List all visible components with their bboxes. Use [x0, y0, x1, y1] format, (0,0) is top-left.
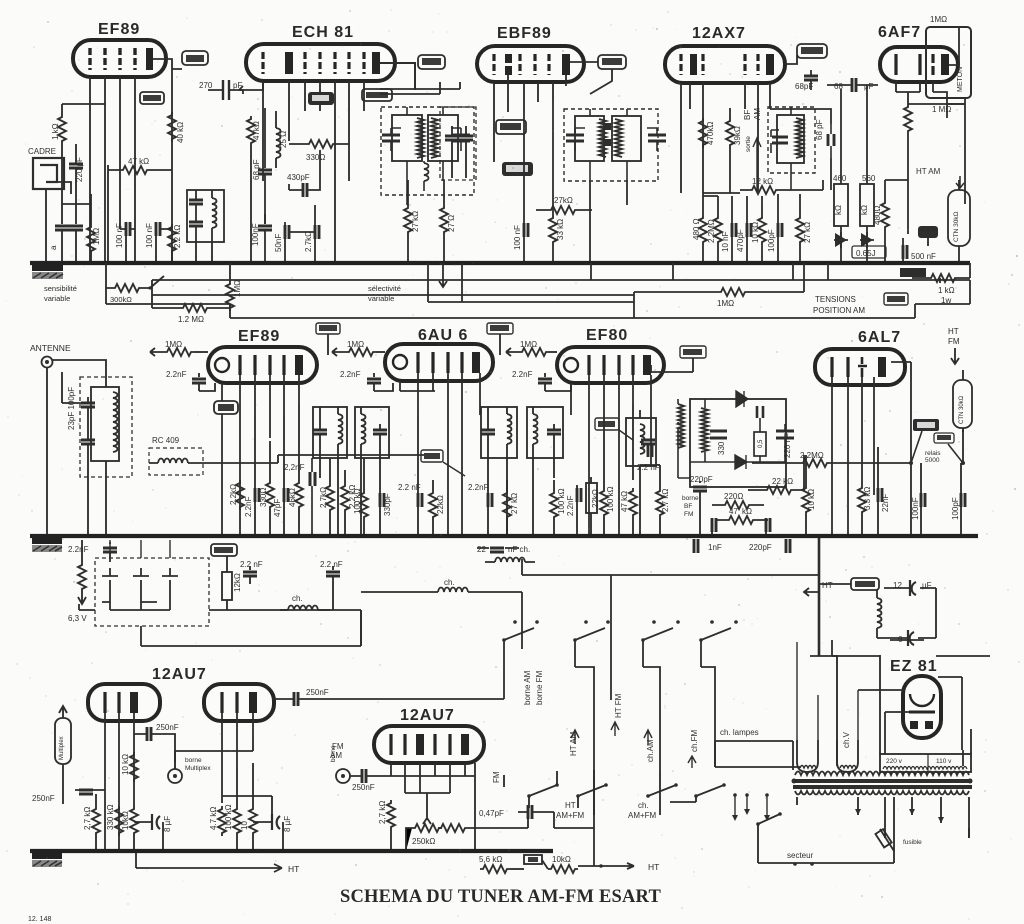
capacitor 2.2nF g1	[68, 542, 117, 562]
resistor 10k	[751, 196, 766, 263]
tube 12AU7 b	[374, 707, 484, 763]
secondary arrows	[855, 809, 944, 823]
svg-text:HT: HT	[565, 801, 576, 810]
svg-text:HT: HT	[948, 327, 959, 336]
badge 230v	[934, 433, 954, 443]
svg-text:EF89: EF89	[98, 21, 140, 38]
svg-text:8 µF: 8 µF	[283, 816, 292, 832]
svg-text:68: 68	[834, 82, 843, 91]
svg-text:5000: 5000	[925, 457, 940, 464]
svg-text:2.2nF: 2.2nF	[166, 370, 187, 379]
resistor 47k horizontal	[108, 157, 172, 174]
resistor 2.7k m1	[319, 458, 334, 536]
resistor 1k 1w	[912, 263, 970, 305]
resistor 10k v	[802, 455, 816, 536]
tube EF89 (top)	[73, 21, 166, 77]
wire row 295	[106, 295, 634, 304]
badge METON	[957, 27, 965, 104]
winding box C 220v 110v	[880, 655, 971, 772]
svg-text:330Ω: 330Ω	[306, 153, 325, 162]
svg-text:10kΩ: 10kΩ	[552, 855, 571, 864]
capacitor 2.2nF d	[468, 478, 492, 536]
labels borne AM FM	[523, 670, 544, 705]
label BF AM	[743, 108, 762, 190]
resistor 10k bot	[542, 855, 659, 873]
svg-text:sensibilité: sensibilité	[44, 284, 77, 293]
wire right drop	[634, 280, 970, 318]
switch mains	[732, 793, 770, 823]
switch row2 d	[670, 783, 726, 802]
svg-text:HT AM: HT AM	[569, 731, 578, 756]
svg-text:BF: BF	[743, 110, 752, 120]
svg-text:100pF: 100pF	[767, 229, 776, 252]
wire	[681, 83, 770, 193]
resistor 330 col	[259, 441, 274, 536]
transformer secondary bumps	[795, 791, 969, 795]
resistor grid EF89m + arrow	[150, 340, 208, 356]
svg-text:2.2 nF: 2.2 nF	[320, 560, 343, 569]
svg-text:2.2kΩ: 2.2kΩ	[229, 484, 238, 505]
svg-text:100 nF: 100 nF	[513, 225, 522, 250]
svg-text:100 kΩ: 100 kΩ	[606, 486, 615, 512]
resistor 1M vert	[226, 263, 634, 318]
resistor 330k bb	[106, 804, 123, 836]
capacitor 100pF	[767, 194, 782, 263]
svg-text:25 Ω: 25 Ω	[279, 131, 288, 148]
svg-text:470kΩ: 470kΩ	[706, 122, 715, 145]
ratio detector box	[678, 391, 794, 487]
svg-text:FM: FM	[684, 511, 693, 518]
svg-text:HT: HT	[648, 862, 659, 872]
resistor 470k	[699, 118, 715, 148]
svg-text:HT FM: HT FM	[614, 693, 623, 718]
resistor 10k bc	[240, 763, 257, 851]
winding box B	[837, 656, 858, 772]
wire	[263, 81, 364, 181]
winding box A	[797, 642, 818, 772]
capacitor 100nF b + resistor 2.2k	[145, 222, 182, 263]
resistor 2.7k bd	[378, 800, 395, 851]
wire RC409 right	[278, 455, 430, 463]
wire mid verticals	[361, 559, 819, 700]
relay trapezoid	[909, 431, 965, 465]
coil filter	[877, 590, 882, 638]
resistor boxes 460 560	[833, 85, 876, 263]
svg-text:100 nF: 100 nF	[145, 223, 154, 248]
capacitor 2.2nF 6AU6	[340, 370, 393, 391]
IF can M2	[355, 407, 389, 458]
tube 12AU7 a	[88, 666, 207, 721]
resistor 47k h	[716, 507, 768, 524]
label ch lampes	[715, 728, 793, 770]
switch s3	[641, 620, 680, 770]
svg-text:HT: HT	[822, 581, 833, 590]
capacitor 100pF r2	[951, 463, 965, 536]
capacitor 430pF	[287, 150, 320, 197]
CTN box	[948, 180, 970, 263]
svg-text:100 kΩ: 100 kΩ	[353, 488, 362, 514]
svg-text:1 kΩ: 1 kΩ	[938, 286, 955, 295]
capacitor 270pF	[199, 80, 243, 100]
svg-text:220 v: 220 v	[886, 758, 903, 765]
label FM vert	[492, 771, 501, 783]
resistor 300k pot	[106, 276, 164, 304]
svg-text:27 kΩ: 27 kΩ	[803, 222, 812, 243]
svg-text:46kΩ: 46kΩ	[288, 488, 297, 507]
svg-text:SCHEMA DU TUNER AM-FM ESART: SCHEMA DU TUNER AM-FM ESART	[340, 887, 661, 907]
resistor 27k B	[536, 196, 592, 214]
svg-text:TENSIONS: TENSIONS	[815, 295, 856, 304]
wire secondary taps top	[594, 767, 800, 815]
capacitor 250nF b	[272, 688, 504, 706]
wire antenna	[47, 360, 106, 536]
svg-text:12AU7: 12AU7	[400, 707, 455, 724]
label tensions position am	[813, 295, 865, 315]
svg-text:27 kΩ: 27 kΩ	[510, 493, 519, 514]
diode a	[834, 232, 848, 248]
svg-text:ch. lampes: ch. lampes	[720, 728, 759, 737]
svg-text:12AX7: 12AX7	[692, 25, 746, 42]
capacitor 8uF bc	[222, 796, 292, 851]
potentiometer 250k	[406, 810, 476, 851]
IF can M1	[313, 407, 347, 458]
wire M cans	[320, 458, 380, 536]
svg-text:22kΩ: 22kΩ	[436, 495, 445, 514]
svg-text:1MΩ: 1MΩ	[92, 228, 101, 245]
svg-text:borne: borne	[682, 495, 699, 502]
resistor 6.3V arrow	[78, 540, 86, 604]
svg-text:68 pF: 68 pF	[252, 159, 261, 180]
svg-text:Multiplex: Multiplex	[185, 765, 211, 772]
label HT AM sw	[569, 730, 579, 756]
resistor 0.5 v	[222, 556, 242, 610]
svg-text:10 nF: 10 nF	[721, 231, 730, 252]
svg-text:1MΩ: 1MΩ	[520, 340, 537, 349]
svg-text:220pF: 220pF	[690, 475, 713, 484]
label HT FM sw	[611, 693, 623, 736]
svg-text:330: 330	[717, 441, 726, 455]
svg-text:kΩ: kΩ	[834, 205, 843, 215]
resistor 1M	[87, 224, 101, 263]
svg-text:2.2nF: 2.2nF	[566, 495, 575, 516]
resistor 3.3k	[858, 485, 872, 536]
capacitor 2.2nF EF80	[512, 370, 571, 391]
svg-text:250nF: 250nF	[306, 688, 329, 697]
capacitor 100nF r1	[911, 463, 925, 536]
capacitor cluster ECH bottom	[274, 205, 319, 263]
resistor 4.7k bc	[209, 806, 226, 836]
tube EBF89 (top)	[477, 25, 584, 82]
svg-text:12AU7: 12AU7	[152, 666, 207, 683]
svg-text:250nF: 250nF	[156, 723, 179, 732]
svg-text:4.7 kΩ: 4.7 kΩ	[209, 807, 218, 830]
label ch AM+FM	[628, 801, 657, 820]
svg-text:2.2nF: 2.2nF	[512, 370, 533, 379]
svg-text:39kΩ: 39kΩ	[733, 126, 742, 145]
svg-text:borne FM: borne FM	[535, 670, 544, 705]
svg-text:EBF89: EBF89	[497, 25, 552, 42]
capacitor 100nF EBF	[513, 112, 528, 263]
pot circle a	[168, 757, 211, 783]
wire T2 drops	[408, 180, 444, 205]
badge EBF89 grid1	[496, 120, 526, 134]
svg-text:100 kΩ: 100 kΩ	[557, 488, 566, 514]
label 1nF	[694, 539, 722, 553]
svg-text:10 kΩ: 10 kΩ	[751, 222, 760, 243]
svg-text:FM: FM	[492, 771, 501, 783]
badge 248	[316, 323, 340, 355]
svg-text:500 nF: 500 nF	[911, 252, 936, 261]
capacitor 250nF left	[32, 790, 105, 803]
wire EF89m pin drops	[222, 375, 299, 536]
resistor 27k m	[503, 480, 519, 536]
svg-text:2.2nF: 2.2nF	[244, 496, 253, 517]
wire secondary drops	[797, 797, 969, 838]
svg-text:10 kΩ: 10 kΩ	[121, 754, 130, 775]
resistor 2.2M	[703, 196, 722, 263]
label secteur	[787, 851, 814, 866]
ground bottom	[32, 853, 62, 867]
svg-text:1 kΩ: 1 kΩ	[51, 123, 60, 140]
svg-text:47kΩ: 47kΩ	[252, 121, 261, 140]
resistor 47k ECH	[247, 116, 261, 263]
svg-text:2,7 kΩ: 2,7 kΩ	[83, 807, 92, 830]
svg-text:2.2 nF: 2.2 nF	[637, 463, 660, 472]
wire ECH81 anode right	[380, 63, 415, 90]
resistor 100k m1	[353, 458, 368, 536]
svg-text:ch.V: ch.V	[842, 731, 851, 748]
wire 47k node	[108, 165, 120, 263]
badge tensions	[884, 293, 908, 305]
svg-text:secteur: secteur	[787, 851, 814, 860]
svg-text:1MΩ: 1MΩ	[930, 15, 947, 24]
svg-text:nF ch.: nF ch.	[508, 545, 530, 554]
wire EF80 drops	[571, 375, 651, 536]
switch arrows mid	[428, 263, 634, 302]
tube EF89 (FM)	[208, 328, 317, 383]
capacitor 68pF a	[795, 70, 818, 91]
resistor 10k bb	[121, 803, 138, 851]
resistor 46k col	[288, 405, 303, 536]
resistor 480	[692, 193, 707, 263]
wire 12AU7b grid row	[391, 763, 475, 851]
wire drop at 106	[105, 263, 107, 304]
svg-text:6AF7: 6AF7	[878, 24, 921, 41]
wire 270pF to ECH81	[239, 81, 263, 90]
capacitor 250nF c	[350, 769, 391, 792]
wire row280	[152, 279, 970, 281]
svg-text:27 kΩ: 27 kΩ	[411, 211, 420, 232]
switch row2 c	[646, 783, 678, 798]
svg-text:2.7 kΩ: 2.7 kΩ	[661, 489, 670, 512]
resistor 1k	[51, 104, 66, 204]
coil 25ohm	[276, 111, 288, 168]
switch secteur	[756, 812, 894, 863]
badge grid	[140, 92, 164, 104]
svg-text:12. 148: 12. 148	[28, 916, 51, 923]
tube EZ81	[890, 658, 941, 738]
capacitor 100nF ECH	[251, 214, 272, 263]
svg-text:1MΩ: 1MΩ	[347, 340, 364, 349]
svg-text:2.2MΩ: 2.2MΩ	[707, 219, 716, 243]
wire HT feed	[818, 538, 821, 656]
IF can M4	[527, 407, 563, 458]
resistor 22k e	[586, 477, 600, 536]
label HT AM	[916, 167, 964, 188]
resistor col EBF	[549, 102, 565, 263]
bus top (AM chassis)	[30, 261, 970, 265]
capacitor 47pF col	[273, 415, 288, 536]
capacitor 2.2nF EF89m	[166, 370, 215, 391]
badge osc dark	[308, 92, 334, 105]
svg-text:sortie: sortie	[745, 136, 752, 152]
badge 15v m	[214, 401, 238, 414]
svg-text:2.2nF: 2.2nF	[340, 370, 361, 379]
svg-text:100nF: 100nF	[251, 223, 260, 246]
svg-text:5,6 kΩ: 5,6 kΩ	[479, 855, 502, 864]
svg-text:1.2 MΩ: 1.2 MΩ	[178, 315, 204, 324]
svg-text:10: 10	[240, 821, 249, 830]
svg-text:23pF 100pF: 23pF 100pF	[67, 387, 76, 430]
svg-text:22: 22	[477, 545, 486, 554]
badge 240v	[913, 419, 939, 431]
svg-text:borne: borne	[185, 757, 202, 764]
coil ch 1	[280, 594, 330, 610]
coil RC409	[149, 436, 278, 475]
capacitor 22nF ch	[477, 545, 535, 562]
wire osc row	[335, 121, 349, 263]
svg-text:1MΩ: 1MΩ	[233, 280, 242, 297]
capacitor pair dets	[712, 518, 770, 536]
capacitor 0.47pF	[479, 805, 554, 819]
svg-text:FM: FM	[948, 337, 960, 346]
svg-text:300kΩ: 300kΩ	[110, 295, 132, 304]
svg-text:kΩ: kΩ	[860, 205, 869, 215]
svg-text:ECH 81: ECH 81	[292, 24, 354, 41]
svg-text:6,3 V: 6,3 V	[68, 614, 87, 623]
svg-text:ch.: ch.	[638, 801, 649, 810]
bus middle	[30, 534, 978, 538]
wire pot to cap	[476, 812, 594, 828]
capacitor 220pF cadre	[69, 144, 84, 204]
label HT mid	[804, 581, 833, 596]
IF can T3 dashed	[564, 109, 666, 181]
wire EF89 anode to badge	[153, 59, 182, 69]
capacitor 100nF a	[115, 170, 135, 263]
svg-text:47 kΩ: 47 kΩ	[620, 491, 629, 512]
svg-text:0,47pF: 0,47pF	[479, 809, 504, 818]
wire 6AL7 drops	[832, 362, 911, 536]
label HT AM+FM	[556, 801, 585, 820]
columns EF80	[566, 485, 581, 536]
badge 77v	[418, 55, 445, 69]
switch s2	[573, 620, 610, 866]
resistor 39k	[726, 108, 742, 193]
svg-text:100nF: 100nF	[911, 497, 920, 520]
svg-text:fusible: fusible	[903, 839, 922, 846]
wire mains right	[894, 797, 969, 851]
CTN FM box	[953, 370, 972, 432]
svg-text:Multiplex: Multiplex	[59, 736, 65, 760]
svg-text:1 MΩ: 1 MΩ	[932, 105, 951, 114]
svg-text:8 µF: 8 µF	[163, 816, 172, 832]
svg-text:68 pF: 68 pF	[815, 119, 824, 140]
resistor 5.6k bot	[479, 855, 524, 873]
svg-text:RC 409: RC 409	[152, 436, 180, 445]
label 220pF	[749, 539, 790, 553]
badge 160v	[595, 418, 633, 440]
capacitor 330pF m1	[380, 478, 392, 536]
svg-text:330Ω: 330Ω	[259, 488, 268, 507]
svg-text:47: 47	[729, 507, 738, 516]
EZ81 surround wires	[832, 640, 990, 766]
label 0.65	[852, 246, 886, 258]
resistor 22k col	[429, 480, 445, 536]
capacitor 2.2nF m2	[284, 458, 315, 536]
capacitor 68pF ECH	[252, 108, 272, 224]
tube EF80	[557, 327, 664, 383]
resistor 220	[712, 492, 764, 509]
resistor 10k ba	[121, 752, 138, 782]
label borne BF FM	[682, 495, 699, 518]
wire 6AU6 drops	[400, 373, 480, 536]
capacitor 22nF al	[878, 447, 890, 536]
label 220pF	[690, 475, 713, 536]
svg-text:CTN 30kΩ: CTN 30kΩ	[953, 211, 960, 242]
capacitor pair left	[49, 226, 83, 263]
wire relay col	[844, 362, 963, 536]
wire EBF89 left col	[380, 82, 460, 89]
wire T3 drops	[590, 181, 627, 263]
capacitor 2.2nF EF80b	[637, 443, 660, 472]
resistor 1M row	[634, 263, 804, 318]
wire 6AF7 pins	[896, 65, 959, 104]
wire drops from bus	[591, 263, 828, 280]
svg-text:ch.: ch.	[292, 594, 303, 603]
svg-text:560: 560	[862, 174, 876, 183]
badge 90v	[421, 450, 465, 476]
svg-text:ch.FM: ch.FM	[690, 729, 699, 752]
svg-text:ANTENNE: ANTENNE	[30, 343, 71, 353]
svg-text:100pF: 100pF	[951, 497, 960, 520]
resistor 40k	[168, 112, 185, 143]
wire top left loop	[62, 104, 105, 224]
resistor 2.7k e	[640, 465, 670, 536]
svg-text:2,7 kΩ: 2,7 kΩ	[378, 801, 387, 824]
svg-text:sélectivité: sélectivité	[368, 284, 401, 293]
wire det row	[703, 109, 831, 193]
svg-text:2.7kΩ: 2.7kΩ	[304, 231, 313, 252]
label ch FM	[688, 729, 699, 768]
capacitor 2.2nF g2	[240, 560, 263, 584]
svg-text:2.2 nF: 2.2 nF	[240, 560, 263, 569]
IF can M5	[626, 410, 656, 536]
box top right	[926, 15, 971, 98]
svg-text:6AU 6: 6AU 6	[418, 327, 468, 344]
EF80 input resistor	[506, 340, 557, 356]
badge EBF89 anode	[570, 55, 626, 94]
wire heater out	[79, 604, 361, 646]
svg-text:330 kΩ: 330 kΩ	[106, 804, 115, 830]
wire 6AF7 verticals	[933, 82, 965, 118]
fuse box bot	[524, 855, 542, 864]
svg-text:HT AM: HT AM	[916, 167, 941, 176]
svg-text:10 kΩ: 10 kΩ	[807, 489, 816, 510]
svg-text:AM+FM: AM+FM	[628, 811, 657, 820]
antenna terminal	[42, 357, 53, 368]
wire can drops	[196, 242, 212, 263]
capacitor 12uF	[884, 580, 932, 596]
